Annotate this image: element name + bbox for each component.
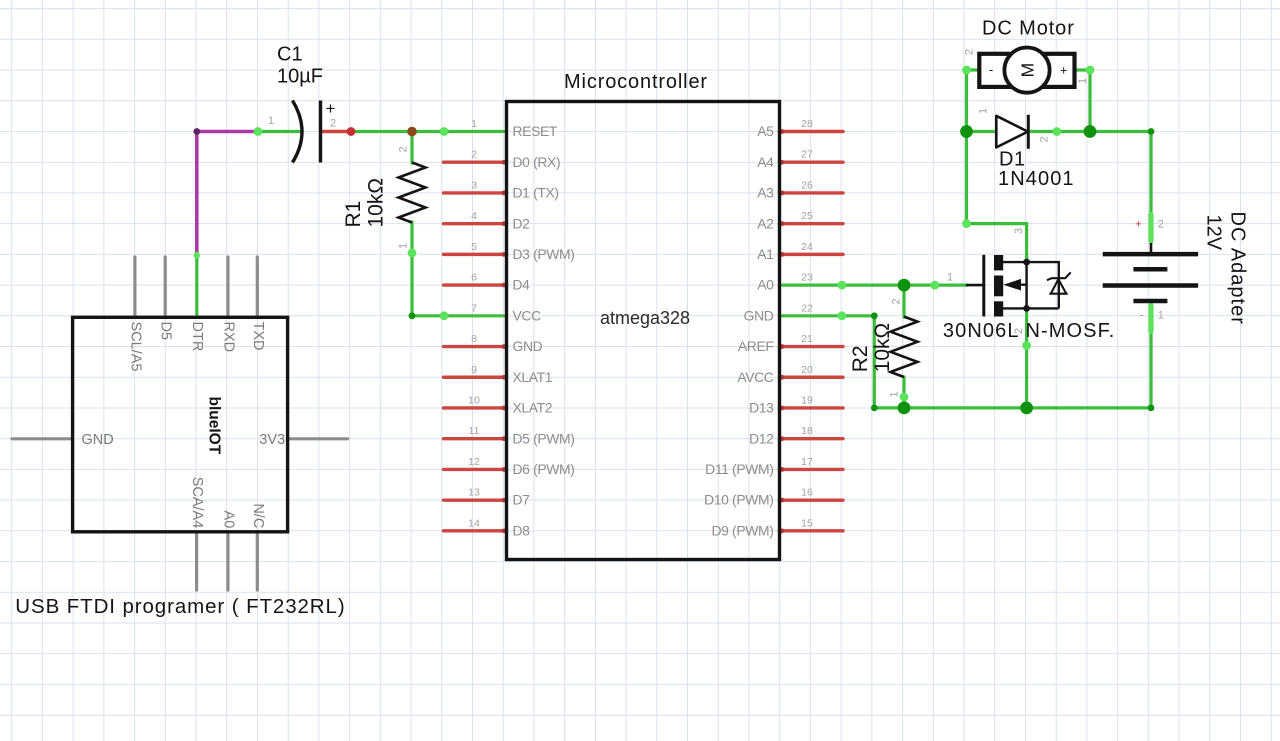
svg-text:D1 (TX): D1 (TX) <box>513 185 559 201</box>
svg-text:GND: GND <box>513 338 543 354</box>
svg-text:RESET: RESET <box>513 123 558 139</box>
svg-text:DC Adapter: DC Adapter <box>1227 212 1249 325</box>
svg-text:-: - <box>989 62 993 77</box>
svg-text:D13: D13 <box>749 400 774 416</box>
svg-text:DTR: DTR <box>189 322 205 352</box>
svg-text:17: 17 <box>801 456 813 468</box>
svg-text:D2: D2 <box>513 215 531 231</box>
svg-text:6: 6 <box>471 272 477 284</box>
svg-text:atmega328: atmega328 <box>600 308 690 328</box>
svg-text:A0: A0 <box>220 511 236 529</box>
svg-text:GND: GND <box>82 432 114 448</box>
svg-text:10kΩ: 10kΩ <box>871 323 894 373</box>
svg-text:RXD: RXD <box>220 322 236 353</box>
svg-text:C1: C1 <box>277 44 303 66</box>
svg-text:TXD: TXD <box>250 322 266 351</box>
svg-text:9: 9 <box>471 364 477 376</box>
svg-text:2: 2 <box>471 149 477 161</box>
svg-text:D8: D8 <box>513 522 531 538</box>
svg-text:26: 26 <box>801 179 813 191</box>
svg-text:1N4001: 1N4001 <box>998 168 1075 190</box>
svg-text:10kΩ: 10kΩ <box>364 178 387 228</box>
svg-text:1: 1 <box>268 115 274 127</box>
svg-text:D4: D4 <box>513 277 531 293</box>
svg-text:A5: A5 <box>757 123 774 139</box>
svg-text:D0 (RX): D0 (RX) <box>513 154 561 170</box>
svg-text:3: 3 <box>471 179 477 191</box>
svg-text:M: M <box>1017 63 1037 78</box>
svg-text:27: 27 <box>801 149 813 161</box>
svg-text:blueIOT: blueIOT <box>206 397 223 455</box>
svg-text:+: + <box>1060 63 1068 78</box>
svg-text:1: 1 <box>978 108 990 114</box>
svg-text:2: 2 <box>964 49 976 55</box>
svg-text:11: 11 <box>469 425 480 437</box>
svg-text:21: 21 <box>801 333 813 345</box>
svg-text:AVCC: AVCC <box>737 369 773 385</box>
svg-text:10: 10 <box>468 394 480 406</box>
svg-text:D12: D12 <box>749 430 774 446</box>
svg-text:14: 14 <box>468 517 480 529</box>
svg-text:15: 15 <box>801 517 813 529</box>
svg-text:VCC: VCC <box>513 307 542 323</box>
svg-text:SCL/A5: SCL/A5 <box>127 322 143 372</box>
svg-text:D5 (PWM): D5 (PWM) <box>513 430 575 446</box>
svg-text:8: 8 <box>471 333 477 345</box>
svg-text:D7: D7 <box>513 492 531 508</box>
svg-text:A0: A0 <box>757 277 774 293</box>
svg-text:7: 7 <box>471 302 477 314</box>
svg-text:DC Motor: DC Motor <box>982 18 1075 40</box>
svg-text:22: 22 <box>801 302 813 314</box>
svg-text:Microcontroller: Microcontroller <box>564 71 708 93</box>
svg-text:A3: A3 <box>757 185 774 201</box>
svg-text:2: 2 <box>398 146 410 152</box>
svg-text:10µF: 10µF <box>277 66 323 88</box>
svg-text:12V: 12V <box>1203 215 1225 251</box>
svg-text:R2: R2 <box>849 345 872 372</box>
svg-text:A4: A4 <box>757 154 774 170</box>
svg-text:N/C: N/C <box>250 503 266 528</box>
svg-text:A2: A2 <box>757 215 774 231</box>
svg-text:XLAT2: XLAT2 <box>513 400 553 416</box>
svg-text:GND: GND <box>744 307 774 323</box>
svg-text:16: 16 <box>801 487 813 499</box>
svg-text:D3 (PWM): D3 (PWM) <box>513 246 575 262</box>
svg-text:13: 13 <box>468 487 480 499</box>
svg-text:2: 2 <box>891 298 903 304</box>
svg-text:+: + <box>1135 218 1141 230</box>
svg-text:+: + <box>326 99 336 118</box>
svg-text:-: - <box>1140 310 1144 322</box>
svg-text:28: 28 <box>801 118 813 130</box>
svg-text:12: 12 <box>468 456 480 468</box>
svg-text:1: 1 <box>471 118 477 130</box>
svg-text:D9 (PWM): D9 (PWM) <box>711 522 773 538</box>
svg-text:A1: A1 <box>757 246 774 262</box>
svg-text:3V3: 3V3 <box>259 432 285 448</box>
svg-text:3: 3 <box>1013 228 1025 234</box>
svg-text:R1: R1 <box>342 201 365 228</box>
svg-text:1: 1 <box>889 391 901 397</box>
svg-text:1: 1 <box>398 243 410 249</box>
svg-text:D5: D5 <box>158 322 174 341</box>
svg-text:23: 23 <box>801 272 813 284</box>
svg-text:1: 1 <box>1158 310 1164 322</box>
svg-text:D10 (PWM): D10 (PWM) <box>704 492 773 508</box>
svg-text:2: 2 <box>1158 218 1164 230</box>
svg-text:2: 2 <box>330 118 336 130</box>
svg-text:2: 2 <box>1013 328 1025 334</box>
svg-text:30N06L N-MOSF.: 30N06L N-MOSF. <box>943 320 1116 342</box>
svg-text:D6 (PWM): D6 (PWM) <box>513 461 575 477</box>
svg-text:1: 1 <box>1077 78 1089 84</box>
svg-text:SCA/A4: SCA/A4 <box>189 477 205 529</box>
svg-text:2: 2 <box>1039 136 1051 142</box>
svg-text:1: 1 <box>947 272 953 284</box>
svg-text:24: 24 <box>801 241 813 253</box>
svg-text:4: 4 <box>471 210 477 222</box>
svg-text:20: 20 <box>801 364 813 376</box>
svg-text:USB FTDI programer ( FT232RL): USB FTDI programer ( FT232RL) <box>15 595 345 618</box>
svg-text:25: 25 <box>801 210 813 222</box>
svg-text:D11 (PWM): D11 (PWM) <box>705 461 773 477</box>
svg-text:AREF: AREF <box>738 338 774 354</box>
svg-text:19: 19 <box>801 394 813 406</box>
svg-text:5: 5 <box>471 241 477 253</box>
svg-text:XLAT1: XLAT1 <box>513 369 553 385</box>
svg-text:18: 18 <box>801 425 813 437</box>
